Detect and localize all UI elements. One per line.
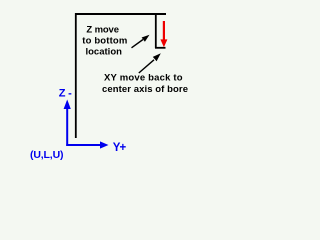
svg-text:to bottom: to bottom (82, 36, 127, 47)
wire: bore top surface line (75, 13, 166, 15)
label: Z move to bottom location (82, 25, 127, 58)
arrow: red Z-move-down arrow (160, 21, 167, 47)
svg-text:XY move back to: XY move back to (104, 73, 183, 84)
arrow: pointer from "Z move" text to red arrow (132, 35, 150, 48)
svg-text:(U,L,U): (U,L,U) (30, 149, 64, 161)
svg-text:Z move: Z move (86, 25, 119, 36)
axis: Y+ horizontal blue arrow (66, 141, 108, 148)
svg-text:Z-: Z- (59, 87, 72, 99)
label: XY move back to center axis of bore (102, 73, 188, 95)
wire: bore bottom step (155, 47, 166, 49)
arrow: pointer from "XY move" text to bore corner (139, 53, 161, 73)
wire: bore left wall (75, 13, 77, 138)
svg-text:location: location (85, 46, 122, 57)
axis: Z- vertical blue arrow (64, 100, 71, 147)
svg-text:center axis of bore: center axis of bore (102, 84, 188, 95)
svg-text:Y+: Y+ (113, 142, 127, 154)
wire: bore inner right wall (155, 13, 157, 48)
